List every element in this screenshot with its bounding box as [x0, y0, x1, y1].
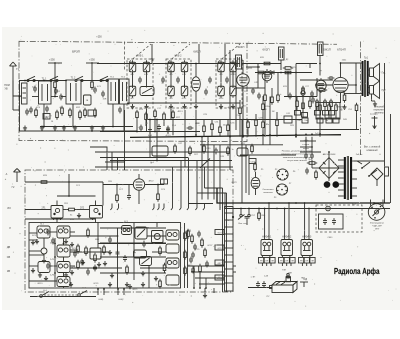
ukv ift row4 [57, 277, 70, 287]
rounded box mid [152, 146, 168, 156]
ground 11 [182, 104, 186, 109]
ground 1 [23, 126, 27, 131]
svg-text:Октальная: Октальная [263, 189, 275, 191]
detector resistor Rc [256, 71, 266, 74]
ukv feed resistor [39, 181, 49, 184]
bottom bus 2 [19, 130, 137, 132]
preamp res [116, 193, 119, 203]
ukv ift row1 a [37, 226, 50, 238]
ground 14 [231, 104, 235, 109]
IF transformer F1 [279, 47, 285, 60]
svg-text:АРФА-1: АРФА-1 [262, 235, 272, 239]
ukv stage tube A [51, 201, 63, 221]
resistor forest r2 [239, 106, 242, 116]
svg-text:КВ: КВ [7, 270, 10, 273]
resistor R21 [319, 103, 322, 113]
value box 102 [43, 114, 50, 120]
power transformer [338, 156, 357, 200]
coil L4 [181, 60, 188, 74]
bus dots [195, 134, 197, 136]
wire v214 [213, 145, 215, 200]
KPE bottom wires [136, 120, 138, 132]
capacitor C5 [101, 91, 105, 98]
ukv stage tube B [90, 201, 103, 221]
resistor R35 [254, 162, 257, 172]
svg-text:2х6,3в: 2х6,3в [356, 154, 363, 156]
ukv mid horizontals [100, 227, 151, 229]
lamp value boxes 3 [299, 258, 304, 264]
ground 12 [194, 104, 198, 109]
wire v306 [305, 137, 307, 152]
capacitor C1 [33, 86, 37, 93]
switch Kn4 [78, 291, 87, 297]
wire h96 [284, 96, 296, 98]
below bus parts [203, 144, 206, 154]
detector resistor Rb [283, 67, 293, 70]
stage resistor [66, 208, 76, 211]
ukv mid caps [116, 250, 120, 257]
ukv right res [187, 229, 190, 239]
coil L1 [129, 60, 136, 74]
speaker ground wire [371, 94, 373, 101]
svg-text:выходн.: выходн. [370, 114, 378, 116]
tuner wire dots [24, 80, 26, 82]
svg-text:ЛЗП: ЛЗП [288, 273, 293, 275]
wire v157 [156, 120, 158, 162]
tube socket S1 [277, 169, 288, 180]
svg-text:+250: +250 [96, 36, 102, 39]
ukv ift row3 a [38, 262, 50, 273]
svg-text:6П14П: 6П14П [337, 48, 346, 52]
wire v69 [68, 174, 70, 196]
ground 7 [101, 126, 105, 131]
resistor R11 [271, 95, 274, 105]
svg-text:4С19: 4С19 [166, 135, 172, 137]
pin posts 1 [97, 288, 105, 295]
svg-text:Электродвигат.: Электродвигат. [370, 223, 385, 225]
wire h88 [236, 87, 258, 89]
wire v124 [124, 110, 126, 170]
cap C41 [310, 153, 314, 160]
main bus y137 [130, 135, 341, 138]
mains switch [357, 161, 383, 186]
wire v185 [184, 110, 186, 167]
bold mains bus [217, 188, 390, 203]
ukv bottom grounds [108, 282, 112, 287]
stage wire [25, 209, 51, 211]
wire preamp [103, 184, 133, 186]
lamp value boxes 1 [259, 258, 264, 264]
lamp block ARFA-2 [281, 240, 293, 267]
pickup res [262, 281, 266, 288]
svg-text:клавишей: клавишей [367, 149, 379, 152]
ukv ift row1 b [57, 226, 70, 238]
top bus [97, 63, 240, 65]
svg-text:6Е1П: 6Е1П [232, 182, 238, 184]
svg-text:0-Щ1: 0-Щ1 [99, 299, 105, 301]
coil L6 [230, 60, 237, 74]
AF gnd [342, 105, 346, 110]
speaker Gr1 [370, 64, 380, 82]
pickup body [270, 282, 298, 293]
svg-text:6R21: 6R21 [133, 289, 139, 291]
forest feeds2 [239, 100, 241, 108]
ukv right value boxes [215, 230, 224, 235]
lamp value boxes 2 [279, 258, 284, 264]
nested corner wires [205, 187, 223, 189]
wire v296 [295, 64, 297, 137]
svg-text:470к: 470к [265, 106, 269, 108]
capacitor C11 [257, 93, 261, 100]
coupling cap [328, 76, 335, 80]
junction dots top bus [132, 63, 134, 65]
capacitor C30 [166, 126, 170, 133]
svg-text:к ЗП: к ЗП [251, 277, 256, 279]
resistor R15 [309, 99, 312, 109]
post G3 [232, 217, 234, 225]
output jack [372, 116, 378, 129]
svg-text:Т1.2: Т1.2 [71, 77, 76, 80]
svg-text:Радиола Арфа: Радиола Арфа [334, 267, 380, 276]
wire drop b [72, 104, 74, 127]
ground 5 [73, 126, 77, 131]
fuse [385, 167, 389, 176]
IF extra wires [257, 64, 259, 89]
resistor R3 [84, 108, 87, 118]
ukv inner right edge wires [184, 223, 186, 288]
resistor forest r1 [203, 124, 206, 134]
svg-text:отсутствии сигнала: отсутствии сигнала [287, 160, 307, 162]
tuner caps extra [29, 107, 33, 114]
ukv mid box A [122, 226, 132, 235]
KPE-1 dashed box [127, 59, 153, 108]
IF bottom wires [264, 103, 266, 137]
electrolytic Ce [301, 91, 305, 95]
lamp block ARFA-1 [261, 240, 273, 267]
ground 3 [53, 126, 57, 131]
ukv mid box2 [166, 244, 179, 253]
ukv ift row2 b [57, 245, 70, 257]
resistor R4 [94, 108, 97, 118]
lamp feed wires 3 [304, 234, 306, 240]
ground 9 [144, 104, 148, 109]
svg-text:Гр2: Гр2 [382, 89, 386, 92]
wire v249 [248, 155, 250, 195]
svg-text:+120: +120 [150, 59, 156, 61]
IF bus y63 [243, 63, 281, 65]
ukv left grounds [35, 239, 39, 244]
wire v243 [242, 60, 244, 72]
AF tube left wires [300, 79, 333, 81]
tube V3 6X2P [316, 78, 326, 93]
bus y131 [100, 131, 200, 133]
mixer tube V1 [192, 64, 201, 104]
wire v103 [102, 182, 104, 206]
output transformer TV1 [344, 60, 370, 97]
KPE-3 dashed box [216, 59, 242, 108]
resistor R10 [264, 93, 267, 103]
antenna jack G2 [14, 169, 21, 183]
tuner dots [43, 126, 45, 128]
ukv ift row3 b [57, 262, 70, 273]
svg-text:4С23: 4С23 [228, 107, 234, 109]
switch Kn3 [40, 292, 49, 298]
detector resistor Rd [283, 71, 293, 74]
svg-text:ИЗ: ИЗ [7, 207, 11, 210]
svg-text:6R19: 6R19 [38, 283, 44, 285]
IF transformer F2 [318, 42, 324, 56]
KPE-2 dashed box [166, 59, 191, 108]
svg-text:ЭПУ: ЭПУ [375, 229, 380, 231]
resistor R37 [315, 170, 318, 180]
ukv mid box C [134, 250, 147, 258]
stage drop wires [56, 218, 58, 223]
ukv mid box D [140, 257, 152, 266]
wire v312 [311, 137, 313, 152]
resistor R1 [54, 80, 57, 90]
ground sp [373, 102, 377, 107]
IFT above V2 [236, 55, 242, 69]
svg-text:Внешний: Внешний [374, 106, 384, 109]
ukv exit wires [188, 265, 225, 267]
ground 8 [130, 104, 134, 109]
tube socket S2 [276, 184, 287, 195]
turntable unit frame (dashed) [316, 205, 362, 232]
svg-text:6Ж1П: 6Ж1П [323, 48, 331, 52]
AF wires [341, 62, 363, 64]
bottom bus 1 [40, 126, 133, 128]
transformer T2 [66, 80, 81, 104]
ground 2 [40, 126, 44, 131]
lamp feed wires 1 [264, 234, 266, 240]
wire h157 [100, 157, 188, 159]
svg-text:4R13: 4R13 [178, 111, 184, 113]
lamp feed wires 2 [284, 234, 286, 240]
capacitor C2 [54, 88, 58, 95]
ukv mid box1 [166, 230, 179, 240]
wire antenna to input [13, 78, 22, 96]
capacitor C12 [288, 93, 292, 100]
stage ground [77, 213, 81, 218]
top frame extension [247, 43, 337, 44]
exit staircase [233, 265, 236, 267]
wire h150r [354, 160, 384, 162]
ukv row links [70, 235, 118, 237]
svg-text:панелька: панелька [263, 192, 273, 194]
cap C35 [305, 168, 309, 175]
capacitor C10 [251, 88, 255, 95]
preamp tube V6 [133, 174, 144, 204]
ukv mid box3 [166, 258, 179, 268]
exit drop wires [193, 266, 195, 288]
antenna jack G1 [10, 62, 17, 78]
capacitor C3 [59, 94, 63, 101]
ukv grounds [31, 240, 35, 245]
diag wire [200, 159, 210, 169]
ground 6 [90, 126, 94, 131]
resistor R13 [296, 99, 299, 109]
wire v390 [390, 114, 392, 203]
ukv mid verticals [117, 228, 119, 288]
value boxes row [295, 111, 301, 116]
tuner small extra [25, 109, 29, 116]
lamp feed verticals [264, 209, 266, 235]
electrolytic cap big2 [333, 181, 340, 188]
pin row [111, 204, 113, 209]
capacitor C4 [93, 87, 97, 94]
AF cathode res [343, 93, 346, 103]
h152 wire [110, 151, 230, 153]
ukv mid grounds [103, 261, 107, 266]
bus y119 [148, 119, 302, 121]
resistor R18 [330, 99, 333, 109]
mains bus 2 [225, 193, 390, 209]
coil L8 [140, 87, 154, 96]
svg-text:6С31: 6С31 [94, 283, 100, 285]
bend wires left [95, 152, 112, 170]
svg-text:АРФА-2: АРФА-2 [282, 235, 292, 239]
wire h152 [300, 151, 321, 153]
box EV [84, 95, 92, 105]
svg-text:Гр1: Гр1 [382, 72, 386, 75]
svg-text:+250: +250 [49, 59, 55, 62]
UKV inner box [29, 223, 181, 289]
right chain [262, 102, 265, 112]
wire drop a [43, 104, 45, 127]
res R41 [258, 211, 261, 221]
ground 10 [169, 104, 173, 109]
right chain2 [269, 97, 271, 145]
resistor R14 [302, 101, 305, 111]
coil L12 [230, 84, 237, 98]
ukv mid box B [135, 227, 147, 239]
tube 6X2P detector [262, 69, 272, 83]
input coil [22, 83, 28, 104]
svg-text:4R22: 4R22 [149, 181, 155, 183]
motor cap box [319, 214, 344, 229]
wire drop c [112, 104, 114, 127]
svg-text:СМ-1: СМ-1 [327, 237, 333, 239]
svg-text:6И1П: 6И1П [193, 50, 200, 54]
pin posts 2 [117, 288, 125, 295]
svg-text:6К4П: 6К4П [238, 45, 245, 49]
svg-text:+250: +250 [89, 59, 95, 62]
coil L5 [218, 60, 225, 74]
ukv mid res [159, 246, 162, 256]
wire v202 [201, 137, 203, 200]
wire exit2 [213, 288, 215, 293]
ground 4 [62, 126, 66, 131]
ukv band verticals [172, 167, 174, 204]
ukv left wires [29, 232, 37, 234]
wire h155 [240, 154, 296, 156]
detector resistor Ra [262, 62, 272, 65]
coil L9 [168, 84, 175, 98]
resistor R17 [324, 99, 327, 109]
coil L10 [181, 84, 188, 98]
svg-text:ДВ: ДВ [7, 246, 11, 249]
transformer T3.2 [120, 79, 130, 104]
tuner block frame (dash-dot) [19, 41, 247, 141]
AF wire y129 [300, 129, 359, 131]
tube V5 6P14P [333, 63, 348, 103]
svg-text:24к: 24к [223, 125, 226, 127]
switch link dashed [44, 294, 77, 296]
pickup wires [248, 287, 272, 289]
switch row wire [30, 296, 96, 298]
svg-text:1М: 1М [251, 120, 254, 122]
trimmer caps mid [138, 77, 142, 84]
wire h160 [110, 160, 232, 162]
resistor R16 [316, 99, 319, 109]
resistor R36 [307, 162, 317, 165]
preamp box [161, 179, 168, 184]
coil L11 [218, 84, 225, 98]
tuner wires extra [54, 90, 56, 96]
coil drops [132, 70, 134, 88]
svg-text:«ЭДГ-1М»: «ЭДГ-1М» [372, 226, 383, 228]
svg-text:240в: 240в [342, 60, 346, 62]
svg-text:переключ.: переключ. [374, 110, 385, 112]
wire h167 [95, 166, 233, 168]
pickup hatch [276, 282, 280, 285]
capacitor C13 [311, 97, 315, 104]
speaker Gr2 [370, 81, 380, 99]
feed stubs from frame [151, 44, 153, 64]
ukv tube 2-L3 [152, 231, 164, 243]
svg-text:32R: 32R [103, 99, 107, 101]
heater wires [300, 140, 316, 142]
diode D1 [270, 71, 274, 75]
ukv r2 res [77, 244, 80, 254]
frame divider [124, 42, 126, 71]
svg-text:ГЗП: ГЗП [282, 270, 286, 272]
svg-text:51к: 51к [304, 120, 307, 122]
motor cap circle [326, 206, 331, 211]
svg-text:6Х2П: 6Х2П [263, 48, 270, 52]
svg-text:СВ: СВ [7, 256, 11, 259]
wire segment [12, 96, 14, 110]
wire v230 [229, 50, 231, 170]
pickup cylinder [286, 274, 291, 282]
UKV connector strip [225, 207, 234, 292]
svg-text:Тр1: Тр1 [364, 57, 369, 60]
svg-text:82к: 82к [266, 124, 269, 126]
wire v208 [207, 137, 209, 200]
lamp block ARFA-3 [301, 240, 313, 267]
svg-text:АРФА-3: АРФА-3 [302, 235, 312, 239]
AF dash frame [360, 42, 362, 156]
ukv vertical bus [54, 238, 56, 287]
coil L7 [129, 84, 136, 98]
preamp cap [127, 193, 131, 200]
resistor R2 [91, 80, 94, 90]
ukv wires h [100, 227, 166, 229]
IF drop wires [264, 88, 266, 95]
wire v320 [319, 56, 321, 76]
mid bottom wire [127, 102, 240, 104]
ukv tube sq [90, 248, 101, 259]
value boxes AF [302, 118, 308, 123]
tube V2 6K4P [237, 72, 249, 89]
wire v281 [280, 60, 282, 70]
signal wire top [19, 80, 66, 82]
ukv right rows [184, 231, 187, 241]
electrolytic cap big1 [324, 181, 331, 188]
bus to bridge [300, 134, 341, 136]
wire v386 [384, 63, 386, 167]
bus y145 [200, 144, 283, 146]
